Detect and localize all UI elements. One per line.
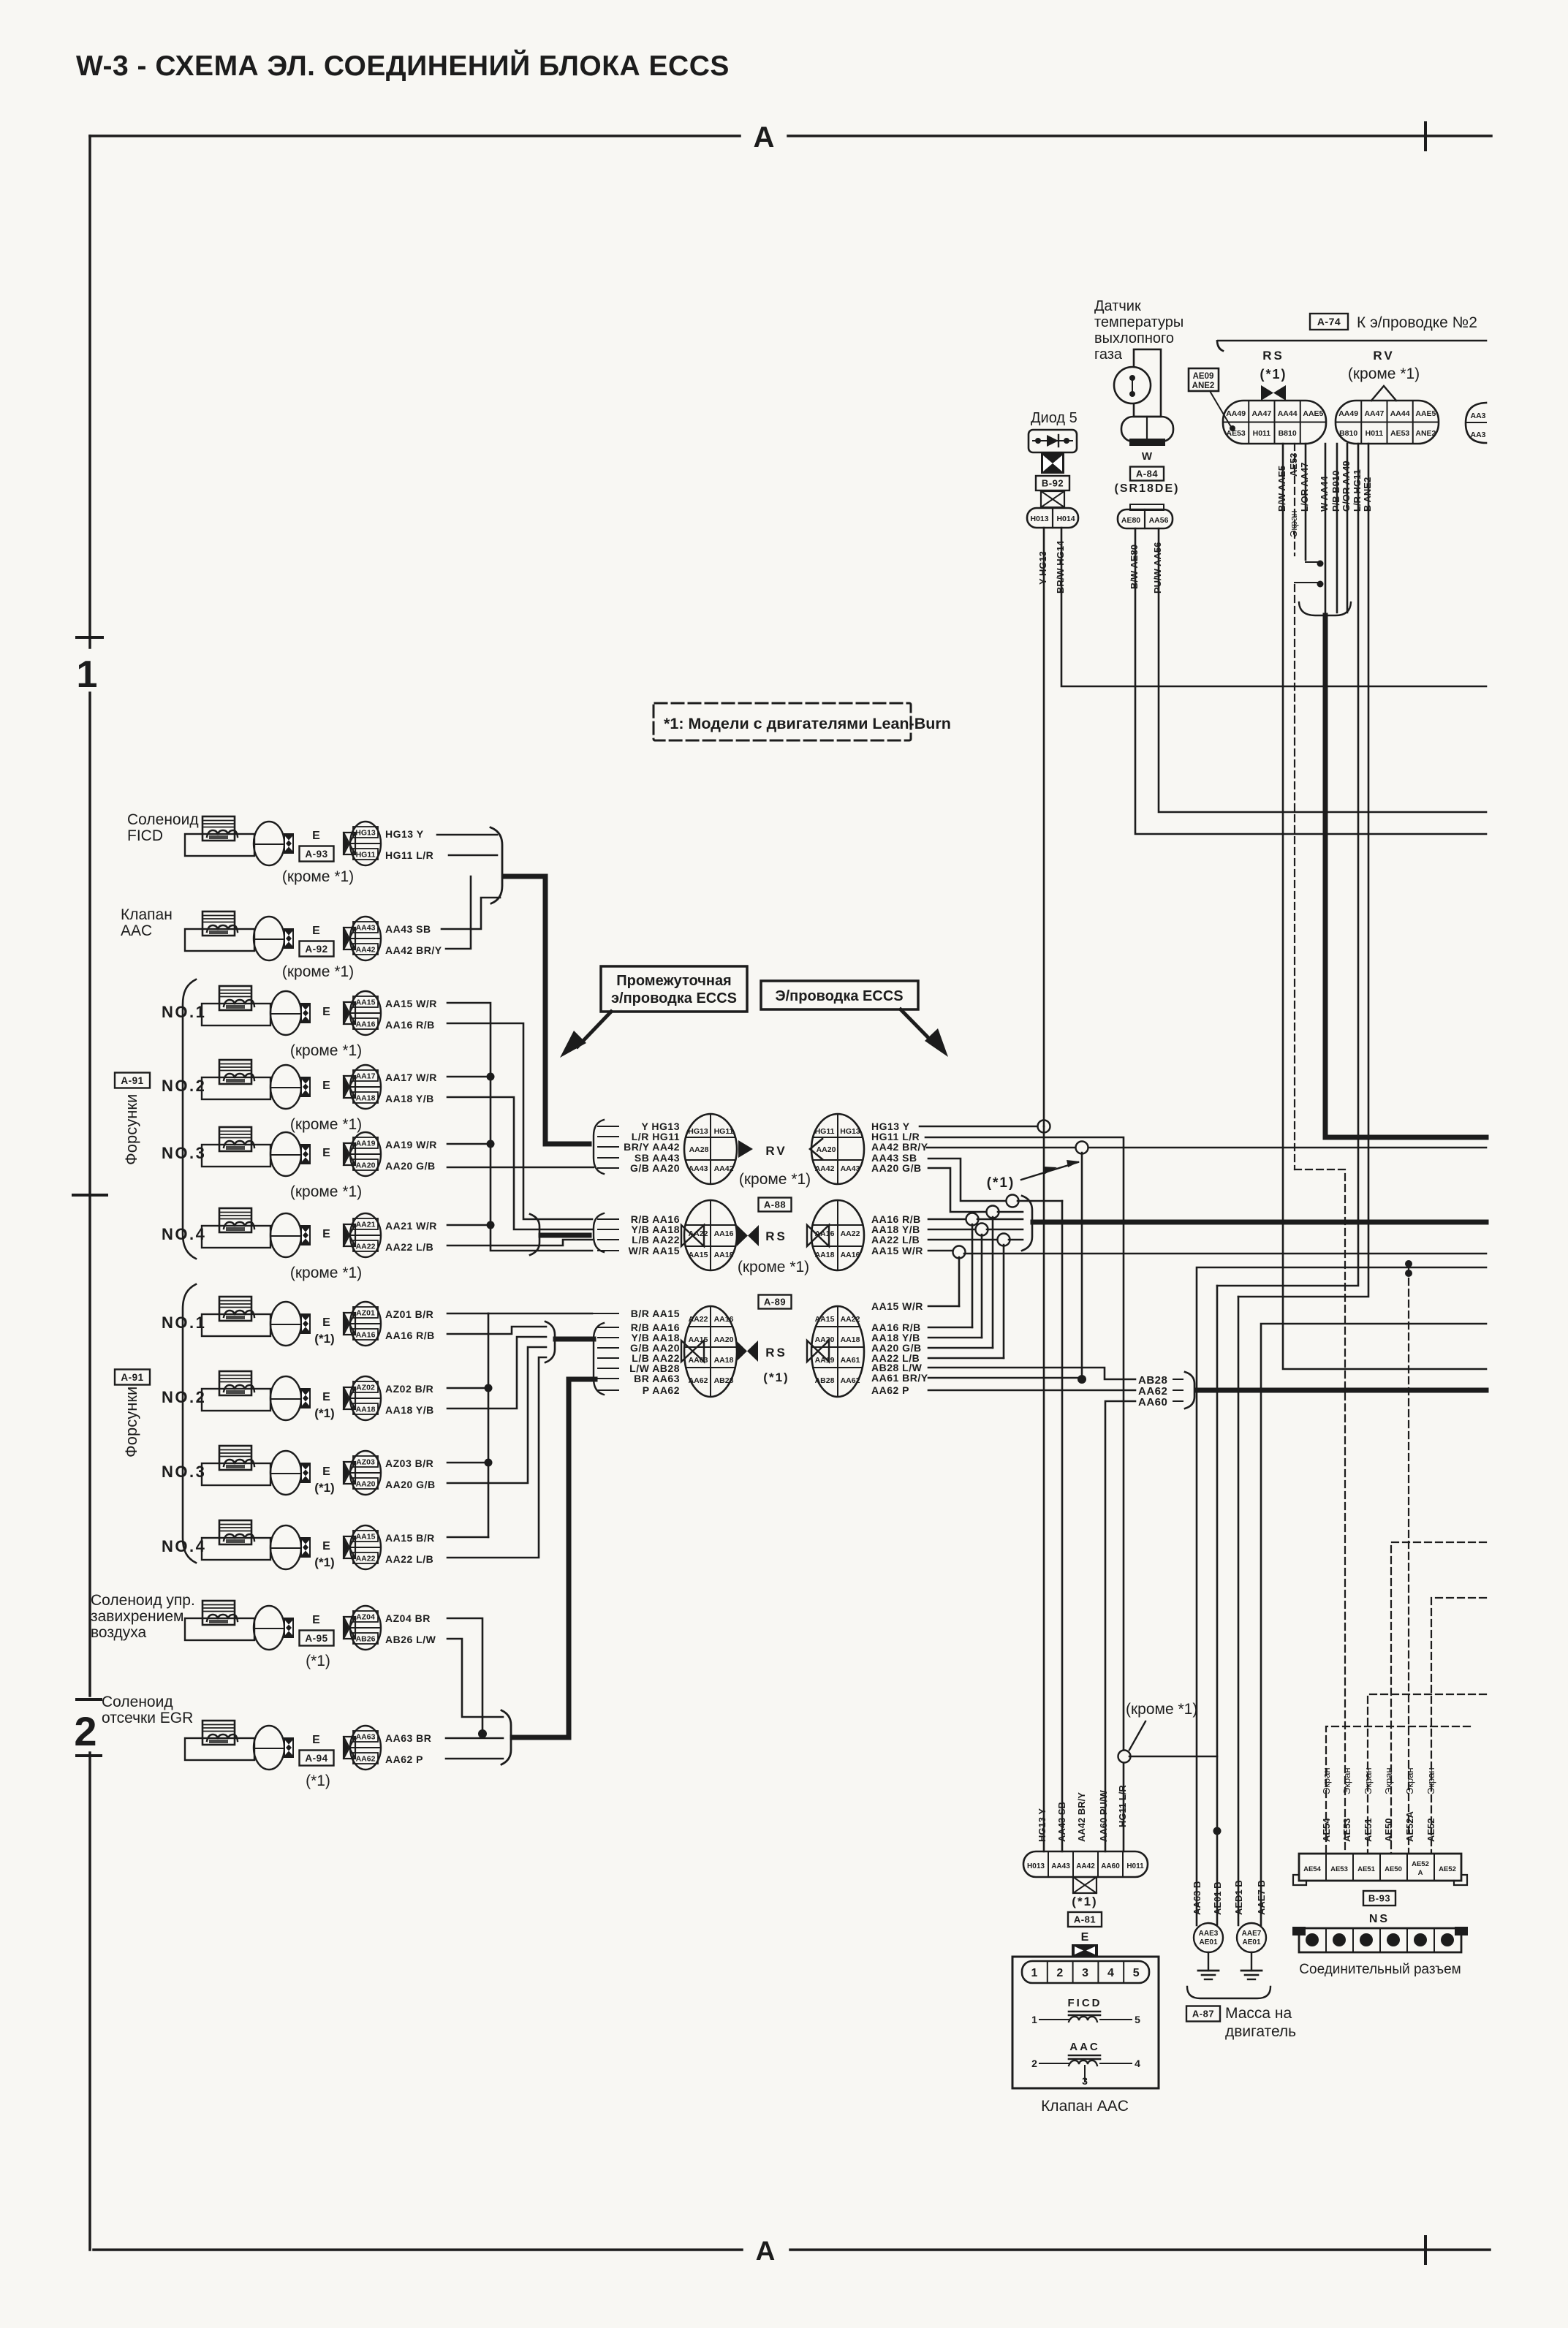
svg-text:AA49: AA49 — [1226, 409, 1246, 418]
connector RV right circle — [811, 1114, 864, 1184]
svg-text:L/B AA22: L/B AA22 — [632, 1234, 680, 1245]
svg-text:AAE5: AAE5 — [1303, 409, 1323, 418]
box A-84 — [1130, 467, 1164, 481]
svg-text:H011: H011 — [1253, 429, 1271, 438]
svg-text:NO.2: NO.2 — [162, 1388, 206, 1406]
svg-text:AA62 P: AA62 P — [385, 1753, 423, 1765]
svg-text:NO.2: NO.2 — [162, 1077, 206, 1095]
svg-text:1: 1 — [1031, 2014, 1037, 2025]
dashed step AE50 — [1391, 1542, 1486, 1854]
node W/R NO.4 — [447, 1224, 491, 1226]
svg-text:NO.1: NO.1 — [162, 1313, 206, 1332]
svg-text:Клапан: Клапан — [121, 906, 173, 923]
svg-text:A-91: A-91 — [121, 1075, 143, 1086]
svg-text:A-88: A-88 — [764, 1199, 786, 1210]
svg-text:(кроме *1): (кроме *1) — [290, 1265, 362, 1281]
svg-text:AZ04: AZ04 — [356, 1613, 375, 1622]
wire AA22 L/B step — [447, 1240, 592, 1245]
svg-text:газа: газа — [1094, 346, 1123, 363]
svg-text:AZ03 B/R: AZ03 B/R — [385, 1457, 433, 1469]
svg-text:AA61 BR/Y: AA61 BR/Y — [871, 1372, 928, 1384]
wire AA63 BR — [446, 1737, 503, 1740]
svg-text:H011: H011 — [1366, 429, 1384, 438]
svg-text:AA19 W/R: AA19 W/R — [385, 1139, 437, 1150]
node B/R NO.3b — [447, 1462, 488, 1464]
wire AAE7 horizontal 1811 — [1261, 1324, 1486, 1925]
svg-text:AZ02: AZ02 — [356, 1384, 375, 1392]
svg-text:AA20: AA20 — [817, 1145, 836, 1154]
svg-text:AED1 B: AED1 B — [1233, 1880, 1244, 1915]
RS left black bowtie — [737, 1225, 759, 1246]
wire B/W AAE5 — [1283, 444, 1486, 1369]
svg-text:AZ04 BR: AZ04 BR — [385, 1612, 431, 1624]
wire Экран dashed — [1294, 444, 1295, 556]
wire AA22 L/B with node — [928, 1239, 999, 1241]
svg-text:B/R AA15: B/R AA15 — [631, 1308, 680, 1319]
svg-text:AA16: AA16 — [356, 1331, 376, 1340]
ground symbol 2 — [1251, 1952, 1252, 1971]
wire B/W AE80 down — [1135, 528, 1486, 834]
svg-text:AE51: AE51 — [1363, 1818, 1374, 1842]
svg-text:(*1): (*1) — [306, 1653, 330, 1669]
svg-text:A-89: A-89 — [764, 1297, 786, 1308]
svg-text:AA16: AA16 — [841, 1251, 860, 1259]
ground circle 2 — [1237, 1923, 1266, 1952]
wire AA15 horizontal long — [964, 1253, 1486, 1255]
svg-text:двигатель: двигатель — [1225, 2023, 1296, 2040]
svg-text:AB26 L/W: AB26 L/W — [385, 1634, 436, 1645]
svg-text:AE53: AE53 — [1390, 429, 1409, 438]
svg-text:HG11: HG11 — [815, 1127, 835, 1136]
svg-text:AA3: AA3 — [1470, 431, 1485, 439]
svg-text:AA47: AA47 — [1251, 409, 1271, 418]
box A-87 — [1186, 2006, 1220, 2022]
wire AA18 Y/B row — [928, 1337, 982, 1339]
svg-text:AA20 G/B: AA20 G/B — [871, 1162, 922, 1174]
svg-text:К э/проводке №2: К э/проводке №2 — [1357, 314, 1477, 331]
svg-text:AA18: AA18 — [356, 1406, 376, 1414]
wire AA42 BR/Y step — [446, 876, 471, 949]
svg-text:AA43: AA43 — [689, 1164, 708, 1173]
svg-text:AA18: AA18 — [714, 1356, 734, 1365]
svg-text:AA18: AA18 — [841, 1335, 860, 1344]
box Промежуточная э/проводка ECCS — [601, 966, 747, 1012]
svg-text:AA20: AA20 — [815, 1335, 835, 1344]
wire AED1 vertical from 1774 — [1238, 1297, 1240, 1925]
svg-text:AE01 B: AE01 B — [1212, 1881, 1223, 1915]
box B-92 — [1036, 476, 1069, 490]
svg-text:AA20: AA20 — [356, 1480, 376, 1489]
svg-text:HG13 Y: HG13 Y — [1037, 1808, 1048, 1842]
svg-text:W AA44: W AA44 — [1319, 476, 1330, 512]
connector RS left circle — [684, 1200, 737, 1270]
node W/R NO.2 — [447, 1076, 491, 1078]
bottom connector pill H013..H011 — [1023, 1851, 1148, 1877]
bracket collector right — [1022, 1196, 1032, 1251]
svg-text:AB28: AB28 — [815, 1376, 835, 1385]
svg-text:э/проводка ECCS: э/проводка ECCS — [611, 990, 737, 1006]
sensor connector pill — [1121, 417, 1173, 441]
wire PU/W AA56 down — [1159, 528, 1486, 812]
node B/R NO.2b — [447, 1387, 488, 1389]
dashed step AE51 — [1368, 1694, 1486, 1854]
svg-text:AA49: AA49 — [1338, 409, 1358, 418]
shield cup — [1299, 602, 1351, 615]
svg-text:A-84: A-84 — [1136, 469, 1158, 479]
svg-text:A-74: A-74 — [1317, 316, 1341, 327]
svg-text:RV: RV — [1373, 349, 1394, 363]
svg-text:AA61: AA61 — [841, 1356, 860, 1365]
svg-text:HG11: HG11 — [356, 851, 376, 860]
svg-text:5: 5 — [1133, 1967, 1140, 1979]
wire L/OR AA47 — [1305, 444, 1307, 560]
svg-text:A-94: A-94 — [305, 1753, 327, 1764]
wire AB28 L/W jog — [928, 1368, 1135, 1379]
svg-text:AE80: AE80 — [1121, 516, 1140, 525]
injector group 2 bracket — [183, 1284, 196, 1563]
svg-text:(*1): (*1) — [987, 1175, 1015, 1191]
svg-text:FICD: FICD — [1068, 1997, 1102, 2009]
connector RS(*1) right oval — [811, 1306, 864, 1397]
wire AA22 L/B b step — [447, 1357, 546, 1558]
dashed Экран2 vertical — [1408, 1267, 1409, 1854]
svg-text:E: E — [322, 1080, 331, 1092]
svg-text:воздуха: воздуха — [91, 1624, 147, 1641]
sensor circle — [1114, 367, 1151, 403]
svg-text:Клапан AAC: Клапан AAC — [1041, 2098, 1129, 2115]
wire AA18 Y/B vertical — [447, 1097, 592, 1229]
svg-text:AA17 W/R: AA17 W/R — [385, 1072, 437, 1083]
svg-text:E: E — [312, 1734, 321, 1746]
svg-text:W: W — [1142, 450, 1153, 463]
wire AA16 R/B with node — [928, 1218, 967, 1221]
injector group 1 label A-91 — [115, 1073, 150, 1088]
wire AA43 SB vertical to bottom — [1061, 1201, 1064, 1851]
wire Y HG13 long down — [1043, 528, 1045, 1126]
svg-text:H013: H013 — [1030, 515, 1048, 523]
svg-text:AA42 BR/Y: AA42 BR/Y — [1076, 1792, 1087, 1842]
svg-text:AA47: AA47 — [1364, 409, 1384, 418]
wire HG11 L/R corner down — [925, 1137, 1124, 1851]
connector strip AE54..AE52 — [1299, 1854, 1461, 1881]
svg-text:AE54: AE54 — [1321, 1818, 1332, 1842]
svg-text:B810: B810 — [1279, 429, 1297, 438]
svg-text:AA15: AA15 — [689, 1251, 708, 1259]
frame left border — [88, 136, 91, 648]
svg-text:P AA62: P AA62 — [643, 1384, 680, 1396]
svg-text:AA19: AA19 — [356, 1140, 376, 1148]
ground symbol 1 — [1208, 1952, 1209, 1971]
wire AA62 P long — [928, 1389, 1135, 1392]
svg-text:3: 3 — [1082, 2075, 1088, 2087]
svg-text:AZ01: AZ01 — [356, 1309, 375, 1318]
connector pill AE80 AA56 — [1130, 504, 1164, 510]
svg-text:A: A — [756, 2236, 776, 2266]
svg-text:AA62: AA62 — [841, 1376, 860, 1385]
svg-text:H011: H011 — [1126, 1862, 1144, 1870]
svg-text:(кроме *1): (кроме *1) — [1126, 1701, 1197, 1718]
connector pill RV top — [1336, 401, 1439, 444]
svg-text:температуры: температуры — [1094, 314, 1183, 330]
zone tick — [73, 1194, 107, 1197]
svg-text:E: E — [322, 1316, 331, 1329]
svg-text:(кроме *1): (кроме *1) — [738, 1259, 809, 1275]
svg-text:AA16 R/B: AA16 R/B — [385, 1330, 435, 1341]
arrow from box to right — [901, 1009, 934, 1044]
svg-text:AB26: AB26 — [356, 1635, 376, 1644]
RV right chevron — [810, 1139, 822, 1159]
connector strip with pins — [1299, 1928, 1461, 1952]
svg-text:Экран: Экран — [1425, 1767, 1436, 1794]
svg-text:AA20: AA20 — [714, 1335, 734, 1344]
shield symbol — [1306, 561, 1319, 563]
svg-text:G/OR AA49: G/OR AA49 — [1341, 460, 1352, 512]
svg-text:(кроме *1): (кроме *1) — [290, 1183, 362, 1200]
svg-text:(*1): (*1) — [314, 1555, 334, 1569]
RS left entry bowtie — [681, 1225, 704, 1246]
svg-text:AA15: AA15 — [815, 1315, 835, 1324]
svg-text:AAE7 B: AAE7 B — [1256, 1880, 1267, 1915]
svg-text:Экран: Экран — [1363, 1767, 1374, 1794]
svg-text:выхлопного: выхлопного — [1094, 330, 1174, 346]
wire BR/W HG14 — [1061, 528, 1486, 686]
svg-text:AZ02 B/R: AZ02 B/R — [385, 1383, 433, 1395]
svg-text:W/R AA15: W/R AA15 — [629, 1245, 680, 1256]
svg-text:BR/W HG14: BR/W HG14 — [1055, 540, 1066, 594]
svg-text:E: E — [322, 1540, 331, 1552]
svg-text:HG11: HG11 — [714, 1127, 734, 1136]
svg-text:AB28: AB28 — [714, 1376, 734, 1385]
svg-text:B/W AAE5: B/W AAE5 — [1276, 466, 1287, 512]
svg-text:AAE7: AAE7 — [1242, 1930, 1262, 1938]
svg-text:FICD: FICD — [127, 827, 163, 844]
box Э/проводка ECCS — [761, 981, 918, 1009]
svg-text:AA62: AA62 — [356, 1755, 376, 1764]
svg-text:Промежуточная: Промежуточная — [616, 973, 731, 989]
svg-text:4: 4 — [1135, 2058, 1140, 2069]
svg-text:AE52: AE52 — [1412, 1860, 1429, 1868]
svg-text:AA22: AA22 — [841, 1315, 860, 1324]
svg-text:A: A — [754, 121, 775, 153]
bowtie outline — [1041, 491, 1064, 507]
svg-text:отсечки EGR: отсечки EGR — [102, 1710, 193, 1726]
svg-text:AE50: AE50 — [1385, 1865, 1402, 1873]
wire AA43 SB step — [928, 1159, 1007, 1201]
svg-text:AZ03: AZ03 — [356, 1458, 375, 1467]
svg-text:AA43: AA43 — [841, 1164, 860, 1173]
svg-text:AA18: AA18 — [356, 1094, 376, 1103]
svg-text:завихрением: завихрением — [91, 1608, 184, 1625]
svg-text:AE01: AE01 — [1242, 1938, 1260, 1946]
svg-text:AA63: AA63 — [689, 1356, 708, 1365]
exhaust temp sensor body — [1134, 349, 1161, 417]
svg-text:AA56: AA56 — [1149, 516, 1169, 525]
svg-text:E: E — [322, 1391, 331, 1403]
wire HG13 Y to bracket — [437, 834, 497, 836]
svg-text:AA22: AA22 — [356, 1555, 376, 1563]
thick wire AA16 R/B main — [1033, 1220, 1486, 1225]
svg-text:HG11 L/R: HG11 L/R — [1117, 1785, 1128, 1827]
svg-text:E: E — [322, 1006, 331, 1018]
wire AA16 R/B row — [928, 1327, 972, 1329]
svg-text:AA63 B: AA63 B — [1192, 1881, 1202, 1915]
svg-text:RS: RS — [765, 1229, 787, 1243]
RS(*1) left entry bowtie — [681, 1341, 704, 1362]
svg-text:NO.1: NO.1 — [162, 1003, 206, 1021]
svg-text:AA16: AA16 — [714, 1315, 734, 1324]
svg-text:L/OR AA47: L/OR AA47 — [1299, 463, 1310, 512]
svg-text:E: E — [322, 1228, 331, 1240]
svg-text:(кроме *1): (кроме *1) — [1348, 365, 1420, 382]
svg-text:AA42: AA42 — [1076, 1862, 1095, 1870]
svg-text:Э/проводка ECCS: Э/проводка ECCS — [775, 988, 903, 1004]
wire AA20 G/B straight — [447, 1167, 594, 1169]
wire AA15 W/R with node — [928, 1250, 954, 1252]
wire AA22 vertical down — [1003, 1245, 1005, 1358]
svg-text:AA20: AA20 — [356, 1161, 376, 1170]
wire AE01 vertical from 1759 — [1216, 1286, 1219, 1925]
svg-text:(кроме *1): (кроме *1) — [739, 1171, 811, 1188]
svg-text:AA22: AA22 — [356, 1243, 376, 1251]
AAC valve box — [1012, 1957, 1159, 2088]
svg-text:AE52A: AE52A — [1404, 1811, 1415, 1842]
ground circle 1 — [1194, 1923, 1223, 1952]
svg-text:AA42 BR/Y: AA42 BR/Y — [871, 1141, 928, 1153]
svg-text:AE53: AE53 — [1330, 1865, 1348, 1873]
wire AB26 L/W step down — [447, 1639, 503, 1717]
wire B ANE2 — [1238, 444, 1368, 1297]
svg-text:AA22: AA22 — [841, 1229, 860, 1238]
svg-text:AA60: AA60 — [1101, 1862, 1120, 1870]
wire AA60 jog down — [1105, 1401, 1135, 1851]
svg-text:4: 4 — [1107, 1967, 1114, 1979]
svg-text:A: A — [1418, 1869, 1423, 1877]
box A-74 — [1310, 314, 1348, 330]
box B-93 — [1363, 1891, 1395, 1906]
svg-text:(кроме *1): (кроме *1) — [290, 1116, 362, 1133]
svg-text:2: 2 — [74, 1708, 96, 1754]
wire AA62 P — [446, 1758, 503, 1760]
RV left arrow — [738, 1140, 753, 1158]
svg-text:P/B B910: P/B B910 — [1330, 471, 1341, 512]
svg-text:AA18 Y/B: AA18 Y/B — [385, 1093, 434, 1104]
svg-text:Масса на: Масса на — [1225, 2005, 1292, 2022]
bowtie below pill — [1073, 1877, 1097, 1893]
svg-text:E: E — [1081, 1931, 1089, 1944]
thick link group2 to RS(*1) fan — [556, 1337, 594, 1342]
wire AA16 R/B b step — [447, 1327, 546, 1334]
svg-text:3: 3 — [1082, 1967, 1088, 1979]
thick bus FICD/AAC to RV left — [505, 876, 589, 1144]
wire B/R to RS(*1) row — [488, 1313, 592, 1315]
svg-text:AE52: AE52 — [1425, 1818, 1436, 1842]
svg-text:Соленоид: Соленоид — [127, 811, 199, 828]
connector pill RS top — [1223, 401, 1326, 444]
dashed marker on Экран2 — [1405, 1260, 1412, 1267]
svg-text:AE53: AE53 — [1288, 452, 1299, 477]
wire AA16 vertical down — [972, 1224, 974, 1327]
svg-text:RV: RV — [765, 1144, 787, 1158]
svg-text:H014: H014 — [1056, 515, 1075, 523]
svg-text:AA15: AA15 — [356, 998, 376, 1007]
frame bottom border with node A — [94, 2248, 742, 2251]
wire from node to AA63 — [1129, 1756, 1217, 1758]
svg-text:AE54: AE54 — [1303, 1865, 1321, 1873]
svg-text:A-93: A-93 — [305, 849, 327, 860]
frame top border with node A — [90, 134, 740, 137]
wire AA20 G/B b step — [447, 1347, 546, 1483]
injector group 1 bracket — [183, 979, 196, 1259]
wire AA22 L/B row — [928, 1357, 1004, 1360]
svg-text:Экран: Экран — [1288, 510, 1299, 537]
svg-text:HG13 Y: HG13 Y — [385, 828, 424, 840]
svg-text:*1: Модели с двигателями Lean-: *1: Модели с двигателями Lean-Burn — [664, 715, 951, 732]
svg-text:AAE5: AAE5 — [1415, 409, 1436, 418]
svg-text:2: 2 — [1056, 1967, 1063, 1979]
wire AA20 G/B step — [928, 1168, 988, 1212]
svg-text:B-93: B-93 — [1368, 1893, 1390, 1904]
svg-text:AA22: AA22 — [689, 1315, 708, 1324]
svg-text:Датчик: Датчик — [1094, 298, 1141, 314]
svg-text:ANE2: ANE2 — [1192, 382, 1215, 390]
svg-text:RS: RS — [765, 1346, 787, 1360]
svg-text:AA15 W/R: AA15 W/R — [871, 1300, 923, 1312]
svg-text:HG13: HG13 — [688, 1127, 708, 1136]
svg-text:HG13: HG13 — [840, 1127, 860, 1136]
svg-text:Форсунки: Форсунки — [122, 1387, 140, 1457]
svg-text:AA63: AA63 — [356, 1733, 376, 1742]
svg-text:HG13: HG13 — [355, 829, 376, 838]
bracket AB28/AA62/AA60 — [1185, 1372, 1194, 1408]
svg-text:Экран: Экран — [1383, 1767, 1394, 1794]
svg-text:AA20 G/B: AA20 G/B — [385, 1479, 436, 1490]
svg-text:AA60 PU/W: AA60 PU/W — [1098, 1789, 1109, 1842]
svg-text:Y HG13: Y HG13 — [1037, 551, 1048, 585]
box A-81 — [1068, 1912, 1102, 1927]
svg-text:AA62 P: AA62 P — [871, 1384, 909, 1396]
svg-text:Диод 5: Диод 5 — [1031, 410, 1077, 426]
svg-text:G/B AA20: G/B AA20 — [630, 1162, 680, 1174]
svg-text:L/R HG11: L/R HG11 — [1352, 469, 1363, 512]
svg-text:A-92: A-92 — [305, 944, 327, 955]
svg-text:B-92: B-92 — [1042, 478, 1064, 489]
box AE09 ANE2 — [1189, 368, 1219, 391]
svg-text:Соединительный разъем: Соединительный разъем — [1299, 1962, 1461, 1977]
diode 5 component — [1029, 430, 1077, 452]
RS(*1) left black bowtie — [736, 1341, 758, 1362]
svg-text:A-91: A-91 — [121, 1372, 143, 1383]
injector group 2 label A-91 — [115, 1370, 150, 1385]
svg-text:(SR18DE): (SR18DE) — [1115, 482, 1180, 495]
svg-text:AA44: AA44 — [1390, 409, 1410, 418]
diode black connector — [1041, 453, 1064, 474]
wire AA20 G/B row — [928, 1347, 993, 1349]
svg-text:AA15 W/R: AA15 W/R — [385, 998, 437, 1009]
svg-text:H013: H013 — [1027, 1862, 1045, 1870]
wire AA43 SB step — [442, 898, 500, 929]
svg-text:AA21 W/R: AA21 W/R — [385, 1220, 437, 1232]
svg-text:(*1): (*1) — [1260, 367, 1287, 382]
connector RV left circle — [684, 1114, 737, 1184]
svg-text:AA63 BR: AA63 BR — [385, 1732, 431, 1744]
wire AA20 vertical down — [992, 1217, 994, 1348]
svg-text:W-3 - СХЕМА ЭЛ. СОЕДИНЕНИЙ БЛО: W-3 - СХЕМА ЭЛ. СОЕДИНЕНИЙ БЛОКА ECCS — [76, 49, 730, 82]
svg-text:E: E — [312, 1614, 321, 1626]
wire L/R HG11 — [1217, 444, 1358, 1286]
svg-text:E: E — [322, 1466, 331, 1478]
connector RS right circle — [811, 1200, 864, 1270]
svg-text:AA15: AA15 — [356, 1533, 376, 1542]
